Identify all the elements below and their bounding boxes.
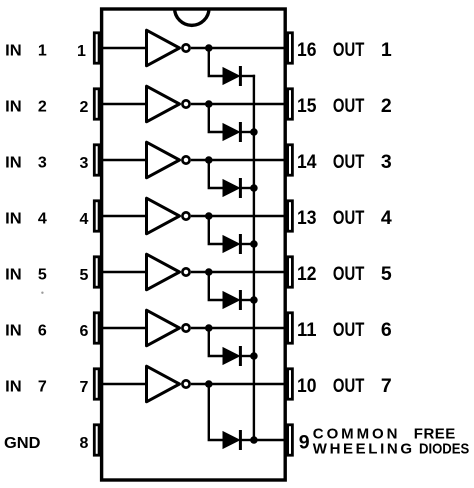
pin 3 tab (94, 145, 99, 175)
junction node on output 1 (205, 44, 213, 52)
pin 7 tab (94, 369, 99, 399)
wire: output 1 junction down to diode 1 anode (209, 48, 225, 76)
common freewheeling-diode rail (253, 75, 255, 440)
svg-text:OUT: OUT (333, 151, 364, 173)
svg-text:5: 5 (80, 267, 89, 284)
svg-text:4: 4 (381, 207, 392, 229)
junction node on output 6 (205, 324, 213, 332)
svg-text:9: 9 (299, 431, 310, 453)
svg-text:7: 7 (381, 375, 392, 397)
pin 10 tab (288, 369, 293, 399)
wire: diode 3 cathode to common rail (240, 187, 255, 189)
pin 8 tab (94, 425, 99, 455)
svg-text:OUT: OUT (333, 39, 364, 61)
svg-text:2: 2 (38, 99, 47, 116)
inverter 2 (147, 86, 190, 122)
pin-1 index notch (175, 8, 209, 25)
diode 7 (223, 430, 242, 450)
pin 1 tab (94, 33, 99, 63)
pin 4 tab (94, 201, 99, 231)
wire: diode 1 cathode to common rail (240, 75, 255, 77)
wire: output 4 junction down to diode 4 anode (209, 216, 225, 244)
wire: rail to pin 9 (254, 439, 286, 441)
svg-text:6: 6 (381, 319, 392, 341)
svg-text:IN: IN (5, 99, 22, 116)
inverter 3 (147, 142, 190, 178)
junction node on output 2 (205, 100, 213, 108)
svg-text:DIODES: DIODES (419, 440, 469, 457)
junction node on output 3 (205, 156, 213, 164)
junction node: diode 2 cathode on rail (250, 128, 258, 136)
svg-text:6: 6 (80, 323, 89, 340)
junction node: diode 5 cathode on rail (250, 296, 258, 304)
pin 11 tab (288, 313, 293, 343)
wire: pin 3 input to inverter 3 (100, 159, 148, 161)
svg-text:GND: GND (4, 435, 41, 452)
wire: pin 2 input to inverter 2 (100, 103, 148, 105)
svg-text:7: 7 (38, 379, 47, 396)
wire: diode 6 cathode to common rail (240, 355, 255, 357)
wire: inverter 4 output to pin 13 (191, 215, 286, 217)
inverter 1 (147, 30, 190, 66)
wire: inverter 7 output to pin 10 (191, 383, 286, 385)
wire: output 6 junction down to diode 6 anode (209, 328, 225, 356)
svg-text:13: 13 (297, 207, 317, 229)
svg-text:6: 6 (38, 323, 47, 340)
wire: pin 5 input to inverter 5 (100, 271, 148, 273)
junction node: diode 4 cathode on rail (250, 240, 258, 248)
svg-text:14: 14 (297, 151, 317, 173)
pin 14 tab (288, 145, 293, 175)
svg-text:IN: IN (5, 267, 22, 284)
pin 15 tab (288, 89, 293, 119)
junction node on output 7 (205, 380, 213, 388)
wire: inverter 6 output to pin 11 (191, 327, 286, 329)
svg-text:OUT: OUT (333, 319, 364, 341)
junction node on output 5 (205, 268, 213, 276)
junction node: diode 7 cathode on rail (250, 436, 258, 444)
wire: output 3 junction down to diode 3 anode (209, 160, 225, 188)
pin 16 tab (288, 33, 293, 63)
svg-text:12: 12 (297, 263, 317, 285)
wire: diode 4 cathode to common rail (240, 243, 255, 245)
wire: pin 7 input to inverter 7 (100, 383, 148, 385)
svg-text:OUT: OUT (333, 263, 364, 285)
svg-text:2: 2 (80, 99, 89, 116)
diode 3 (223, 178, 242, 198)
wire: pin 6 input to inverter 6 (100, 327, 148, 329)
svg-text:11: 11 (297, 319, 317, 341)
wire: output 5 junction down to diode 5 anode (209, 272, 225, 300)
wire: output 2 junction down to diode 2 anode (209, 104, 225, 132)
svg-text:OUT: OUT (333, 207, 364, 229)
diode 6 (223, 346, 242, 366)
svg-text:4: 4 (80, 211, 89, 228)
pin 6 tab (94, 313, 99, 343)
wire: inverter 3 output to pin 14 (191, 159, 286, 161)
wire: inverter 5 output to pin 12 (191, 271, 286, 273)
svg-text:3: 3 (38, 155, 47, 172)
junction node on output 4 (205, 212, 213, 220)
svg-text:1: 1 (381, 39, 392, 61)
pin 13 tab (288, 201, 293, 231)
svg-text:IN: IN (5, 379, 22, 396)
diode 1 (223, 66, 242, 86)
pin 9 tab (288, 425, 293, 455)
inverter 4 (147, 198, 190, 234)
svg-text:3: 3 (80, 155, 89, 172)
wire: output 7 junction down to diode 7 anode (209, 384, 225, 440)
wire: pin 1 input to inverter 1 (100, 47, 148, 49)
svg-text:5: 5 (38, 267, 47, 284)
svg-text:8: 8 (80, 435, 89, 452)
wire: inverter 1 output to pin 16 (191, 47, 286, 49)
junction node: diode 6 cathode on rail (250, 352, 258, 360)
svg-text:5: 5 (381, 263, 392, 285)
svg-text:IN: IN (5, 323, 22, 340)
junction node: diode 3 cathode on rail (250, 184, 258, 192)
wire: diode 5 cathode to common rail (240, 299, 255, 301)
svg-text:10: 10 (297, 375, 317, 397)
svg-text:IN: IN (5, 155, 22, 172)
svg-text:IN: IN (5, 43, 22, 60)
inverter 6 (147, 310, 190, 346)
pin 12 tab (288, 257, 293, 287)
diode 2 (223, 122, 242, 142)
svg-text:2: 2 (381, 95, 392, 117)
pin 2 tab (94, 89, 99, 119)
svg-text:1: 1 (77, 43, 86, 60)
svg-text:OUT: OUT (333, 95, 364, 117)
IC body outline (102, 9, 286, 480)
diode 5 (223, 290, 242, 310)
diode 4 (223, 234, 242, 254)
svg-text:OUT: OUT (333, 375, 364, 397)
pin 5 tab (94, 257, 99, 287)
wire: diode 2 cathode to common rail (240, 131, 255, 133)
svg-text:15: 15 (297, 95, 317, 117)
wire: diode 7 cathode to common rail (240, 439, 255, 441)
wire: pin 4 input to inverter 4 (100, 215, 148, 217)
svg-text:16: 16 (297, 39, 317, 61)
svg-text:4: 4 (38, 211, 47, 228)
scan speck (41, 292, 43, 294)
svg-text:IN: IN (5, 211, 22, 228)
svg-text:7: 7 (80, 379, 89, 396)
label COMMON FREE WHEELING DIODES (313, 426, 469, 458)
inverter 7 (147, 366, 190, 402)
svg-text:3: 3 (381, 151, 392, 173)
wire: inverter 2 output to pin 15 (191, 103, 286, 105)
svg-text:1: 1 (38, 43, 47, 60)
inverter 5 (147, 254, 190, 290)
